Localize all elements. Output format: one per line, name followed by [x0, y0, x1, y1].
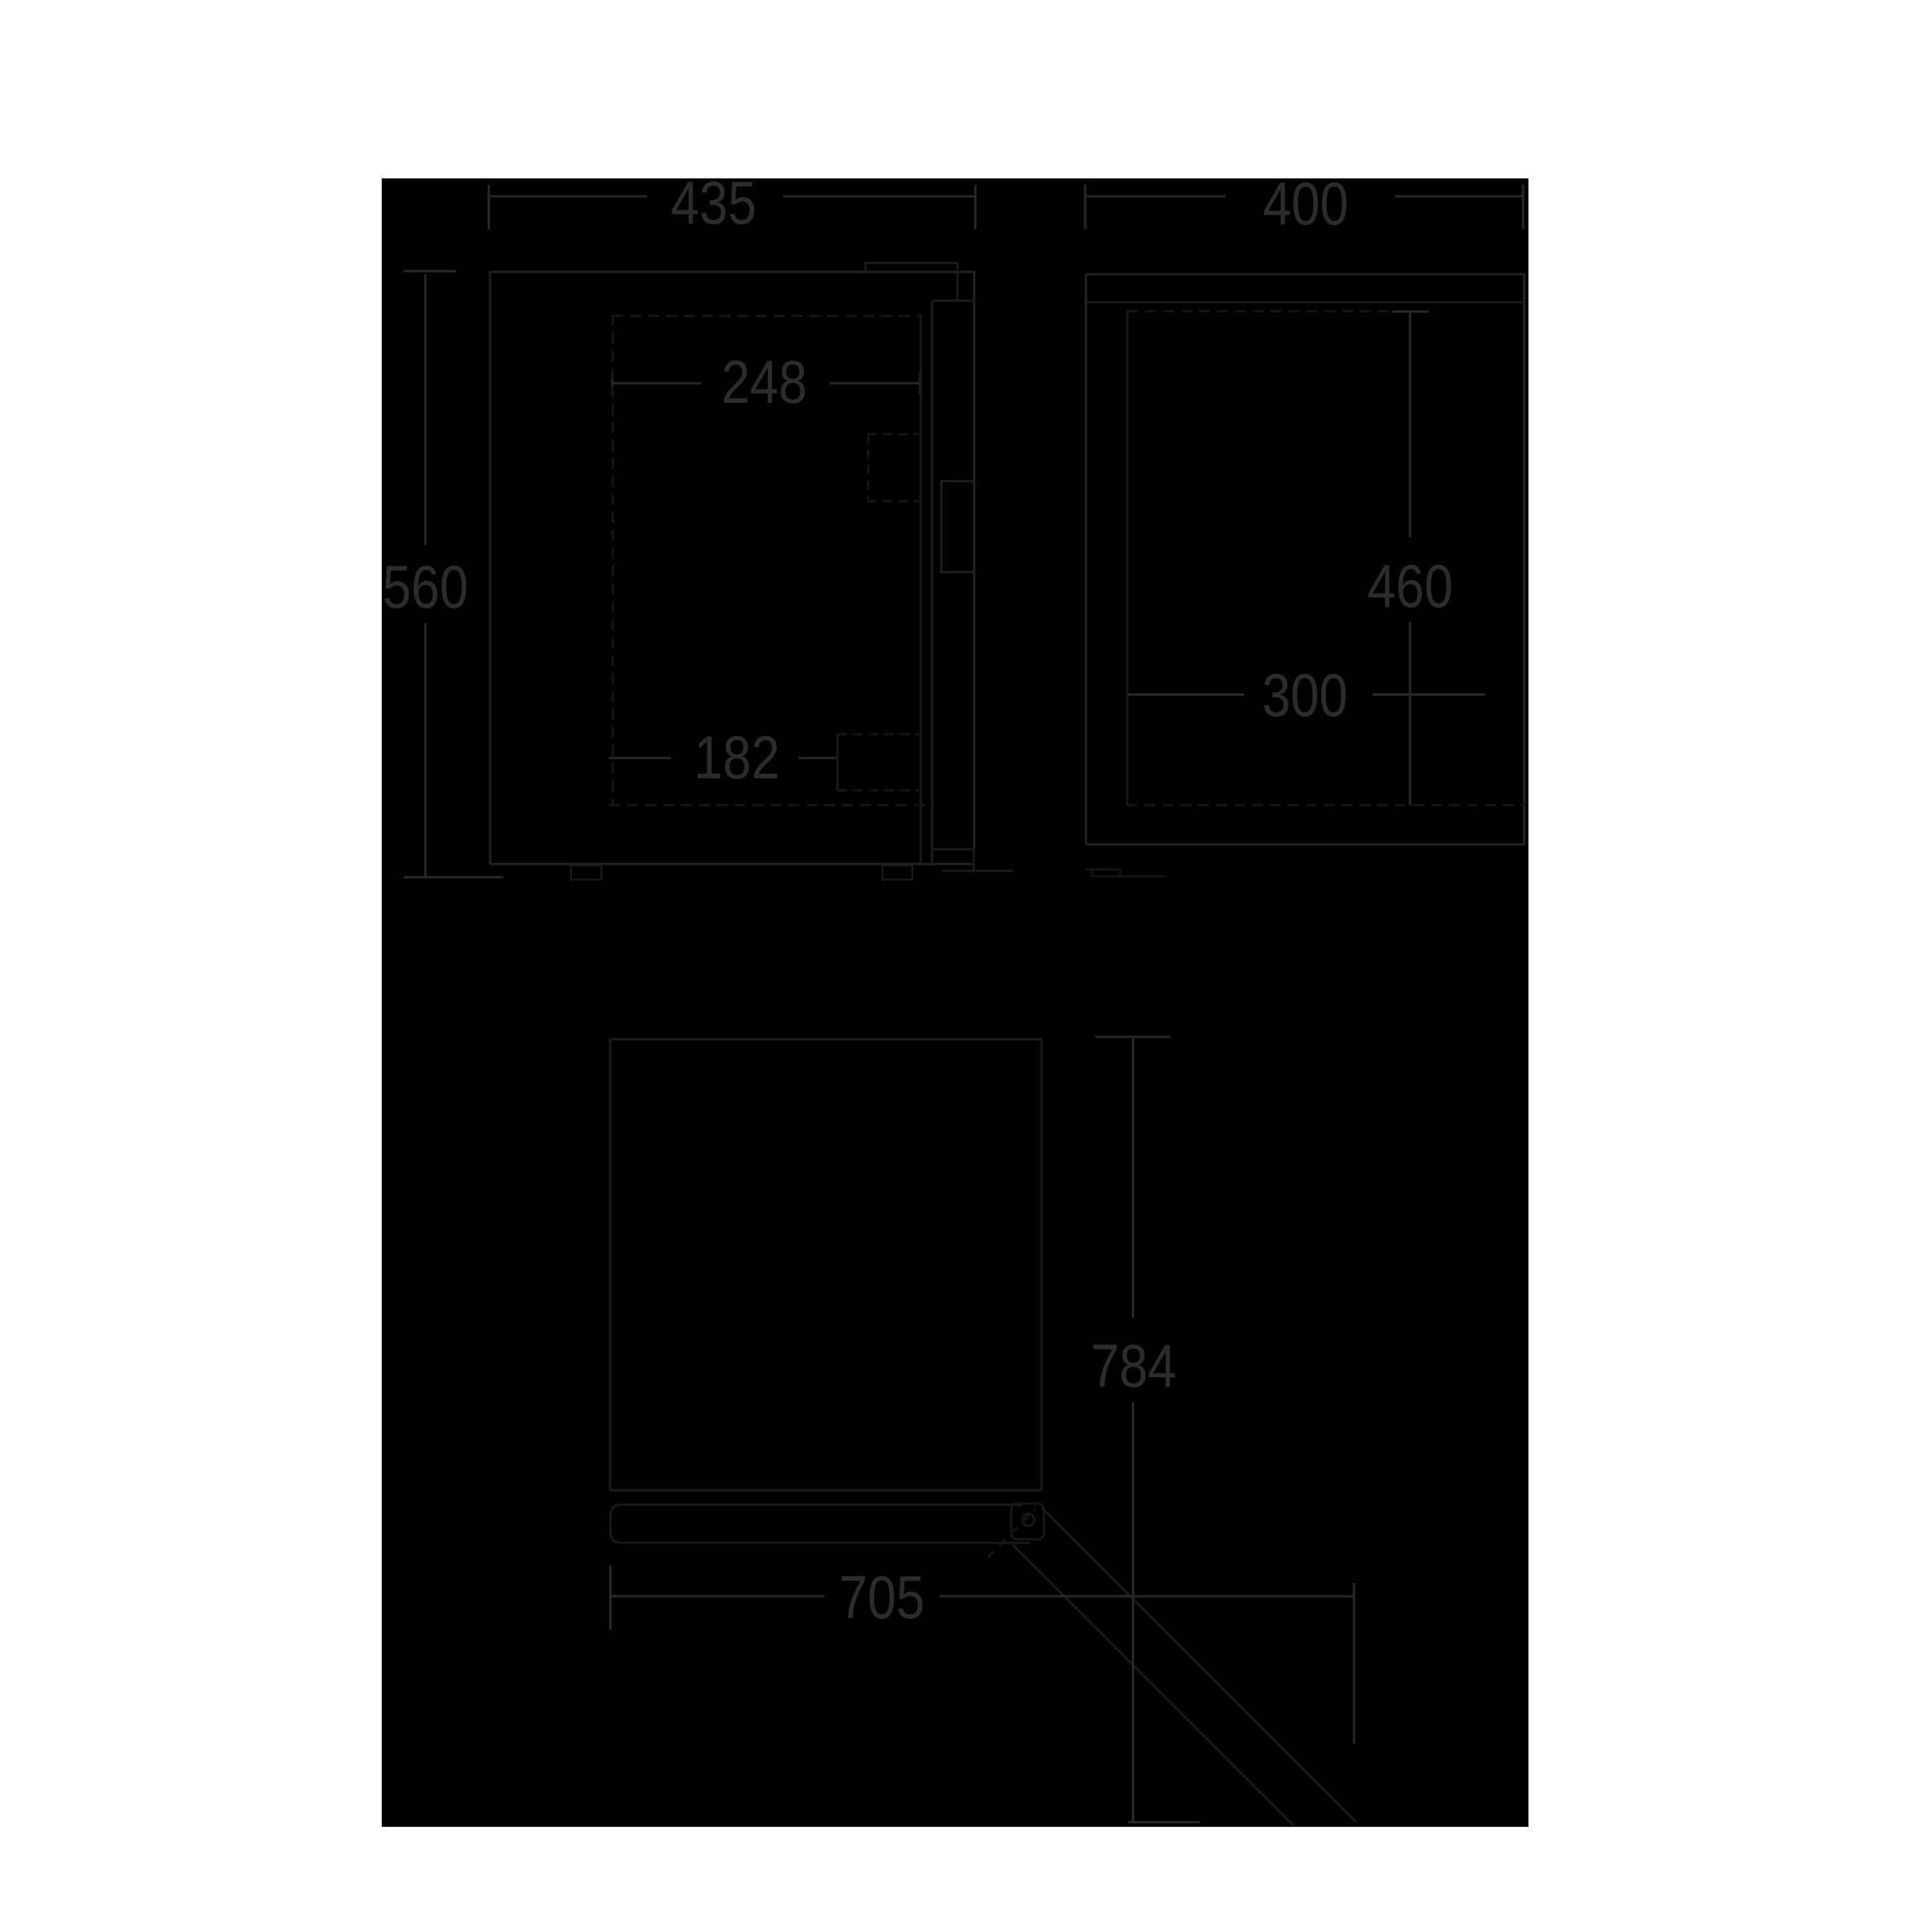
dimension 784 line lower segment	[1132, 1402, 1134, 1821]
plan1 right wall window upper dashed bottom	[867, 500, 919, 502]
plan1 inner wall vertical B	[931, 301, 933, 864]
plan2 bottom-left step line2	[1120, 876, 1165, 878]
drawing canvas black background	[382, 178, 1528, 1827]
dimension 300 line right segment	[1373, 693, 1485, 696]
plan1 bottom-right step vertical	[973, 849, 975, 871]
dimension 400 line right segment	[1395, 196, 1523, 198]
svg-text:705: 705	[839, 1563, 925, 1631]
bottom plan roof diagonal lower	[1013, 1545, 1294, 1826]
plan2 outer wall top	[1086, 273, 1525, 276]
dimension 400 left tick	[1084, 185, 1087, 229]
plan1 top-right notch left stub	[865, 262, 867, 272]
plan1 outer wall left	[489, 271, 492, 864]
dimension 705 left tick	[609, 1565, 612, 1630]
plan2 inner wall vertical	[1126, 311, 1129, 806]
svg-text:784: 784	[1091, 1331, 1176, 1400]
plan1 outer wall bottom	[490, 863, 972, 866]
dimension 435 line left segment	[490, 196, 647, 198]
dimension 460 top tick	[1392, 311, 1429, 313]
plan1 door opening rect on right wall	[940, 480, 975, 573]
dimension 460 line upper segment	[1409, 310, 1412, 538]
plan1 bottom-right step lower line	[942, 870, 1013, 873]
svg-text:182: 182	[694, 723, 780, 791]
plan1 inner wall vertical A	[920, 315, 922, 864]
bottom plan outer wall bottom	[610, 1490, 1042, 1492]
dimension 560 bottom tick	[404, 876, 503, 879]
svg-text:300: 300	[1262, 661, 1348, 729]
plan1 top-right notch top line	[866, 262, 957, 264]
svg-text:435: 435	[671, 168, 756, 237]
plan2 bottom-left step rect	[1091, 869, 1120, 876]
plan2 top wall inner line	[1086, 301, 1525, 304]
dimension 705 line left segment	[612, 1595, 824, 1598]
dimension 435 right tick	[975, 185, 977, 229]
bottom plan terrace band top	[611, 1505, 1023, 1521]
dimension 705 line right segment	[940, 1595, 1354, 1598]
bottom plan outer wall right	[1041, 1038, 1043, 1490]
plan1 top-right notch right stub	[957, 262, 959, 301]
dimension 784 bottom tick	[1128, 1821, 1200, 1824]
plan2 outer wall left	[1085, 274, 1088, 844]
plan1 lower window left jamb	[837, 734, 839, 791]
bottom plan corner piece	[1011, 1504, 1044, 1539]
svg-text:248: 248	[721, 347, 807, 416]
svg-text:560: 560	[383, 552, 468, 621]
bottom plan corner circle	[1023, 1514, 1035, 1526]
dimension 300 line left segment	[1128, 693, 1244, 696]
dimension 248 line left segment	[612, 383, 701, 385]
plan1 lower window dashed bottom	[837, 789, 919, 791]
plan1 dashed floor top	[612, 315, 921, 317]
dimension 248 right tick	[919, 372, 922, 394]
plan1 bottom step small rect	[571, 866, 601, 880]
plan2 bottom-left step line	[1086, 869, 1110, 871]
dimension 705 right end vertical	[1353, 1583, 1356, 1743]
plan2 outer wall right	[1523, 274, 1525, 844]
plan1 bottom-right step upper line	[932, 848, 974, 851]
plan1 outer wall right	[973, 271, 975, 849]
plan2 outer wall bottom	[1086, 844, 1525, 846]
dimension 182 line right segment	[799, 757, 837, 760]
plan2 dashed roof top	[1127, 310, 1410, 312]
plan2 dashed roof bottom	[1126, 804, 1525, 806]
plan1 top-right notch bottom line	[933, 300, 975, 302]
plan1 dashed floor bottom	[609, 804, 934, 806]
svg-text:460: 460	[1367, 552, 1453, 620]
dimension 435 line right segment	[783, 196, 976, 198]
svg-text:400: 400	[1263, 169, 1349, 238]
dimension 182 line left segment	[609, 757, 671, 760]
dimension 248 left tick	[612, 372, 614, 394]
dimension 248 line right segment	[830, 383, 920, 385]
bottom plan dashed diagonal at corner	[988, 1509, 1035, 1557]
plan1 lower window dashed top	[837, 733, 919, 735]
plan1 bottom step small rect B	[883, 866, 912, 880]
dimension 784 line upper segment	[1132, 1038, 1134, 1318]
plan1 right wall window upper dashed top	[867, 433, 919, 435]
dimension 400 line left segment	[1086, 196, 1225, 198]
bottom plan outer wall left	[609, 1038, 612, 1490]
plan1 right wall window upper dashed left	[867, 434, 869, 502]
bottom plan outer wall top	[610, 1038, 1042, 1041]
bottom plan terrace band bottom	[611, 1521, 1031, 1543]
dimension 435 left tick	[488, 185, 490, 229]
dimension 560 top tick	[404, 270, 456, 273]
dimension 560 line upper segment	[425, 274, 427, 545]
plan1 outer wall top	[490, 271, 975, 273]
dimension 400 right tick	[1522, 185, 1525, 229]
dimension 784 top tick	[1095, 1036, 1171, 1038]
dimension 560 line lower segment	[425, 623, 427, 877]
dimension 460 line lower segment	[1409, 622, 1412, 806]
bottom plan roof diagonal upper	[1042, 1508, 1356, 1822]
plan1 dashed floor left	[612, 315, 614, 805]
